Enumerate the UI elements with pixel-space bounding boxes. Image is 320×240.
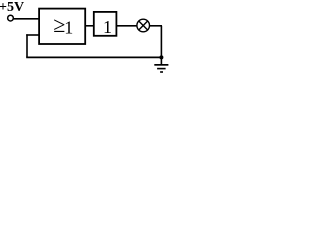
wire lamp to output node [150, 25, 162, 27]
svg-text:1: 1 [103, 17, 112, 37]
wire OR output to amplifier input [85, 25, 94, 27]
ground [154, 65, 168, 72]
wire feedback to OR input 2 [26, 34, 39, 36]
OR gate U1 (IEC box) [39, 9, 85, 44]
wire feedback bottom rail [26, 56, 161, 58]
wire feedback vertical [26, 34, 28, 57]
lamp H1 [137, 19, 150, 32]
wire output node vertical [160, 26, 162, 65]
amplifier U2 (IEC box 1) [94, 12, 117, 36]
svg-text:1: 1 [64, 18, 73, 38]
wire amplifier output to lamp [116, 25, 137, 27]
wire terminal to OR input 1 [14, 18, 39, 20]
svg-text:+5V: +5V [0, 0, 24, 15]
terminal (+5V input) [8, 15, 14, 21]
junction node A [159, 55, 163, 59]
